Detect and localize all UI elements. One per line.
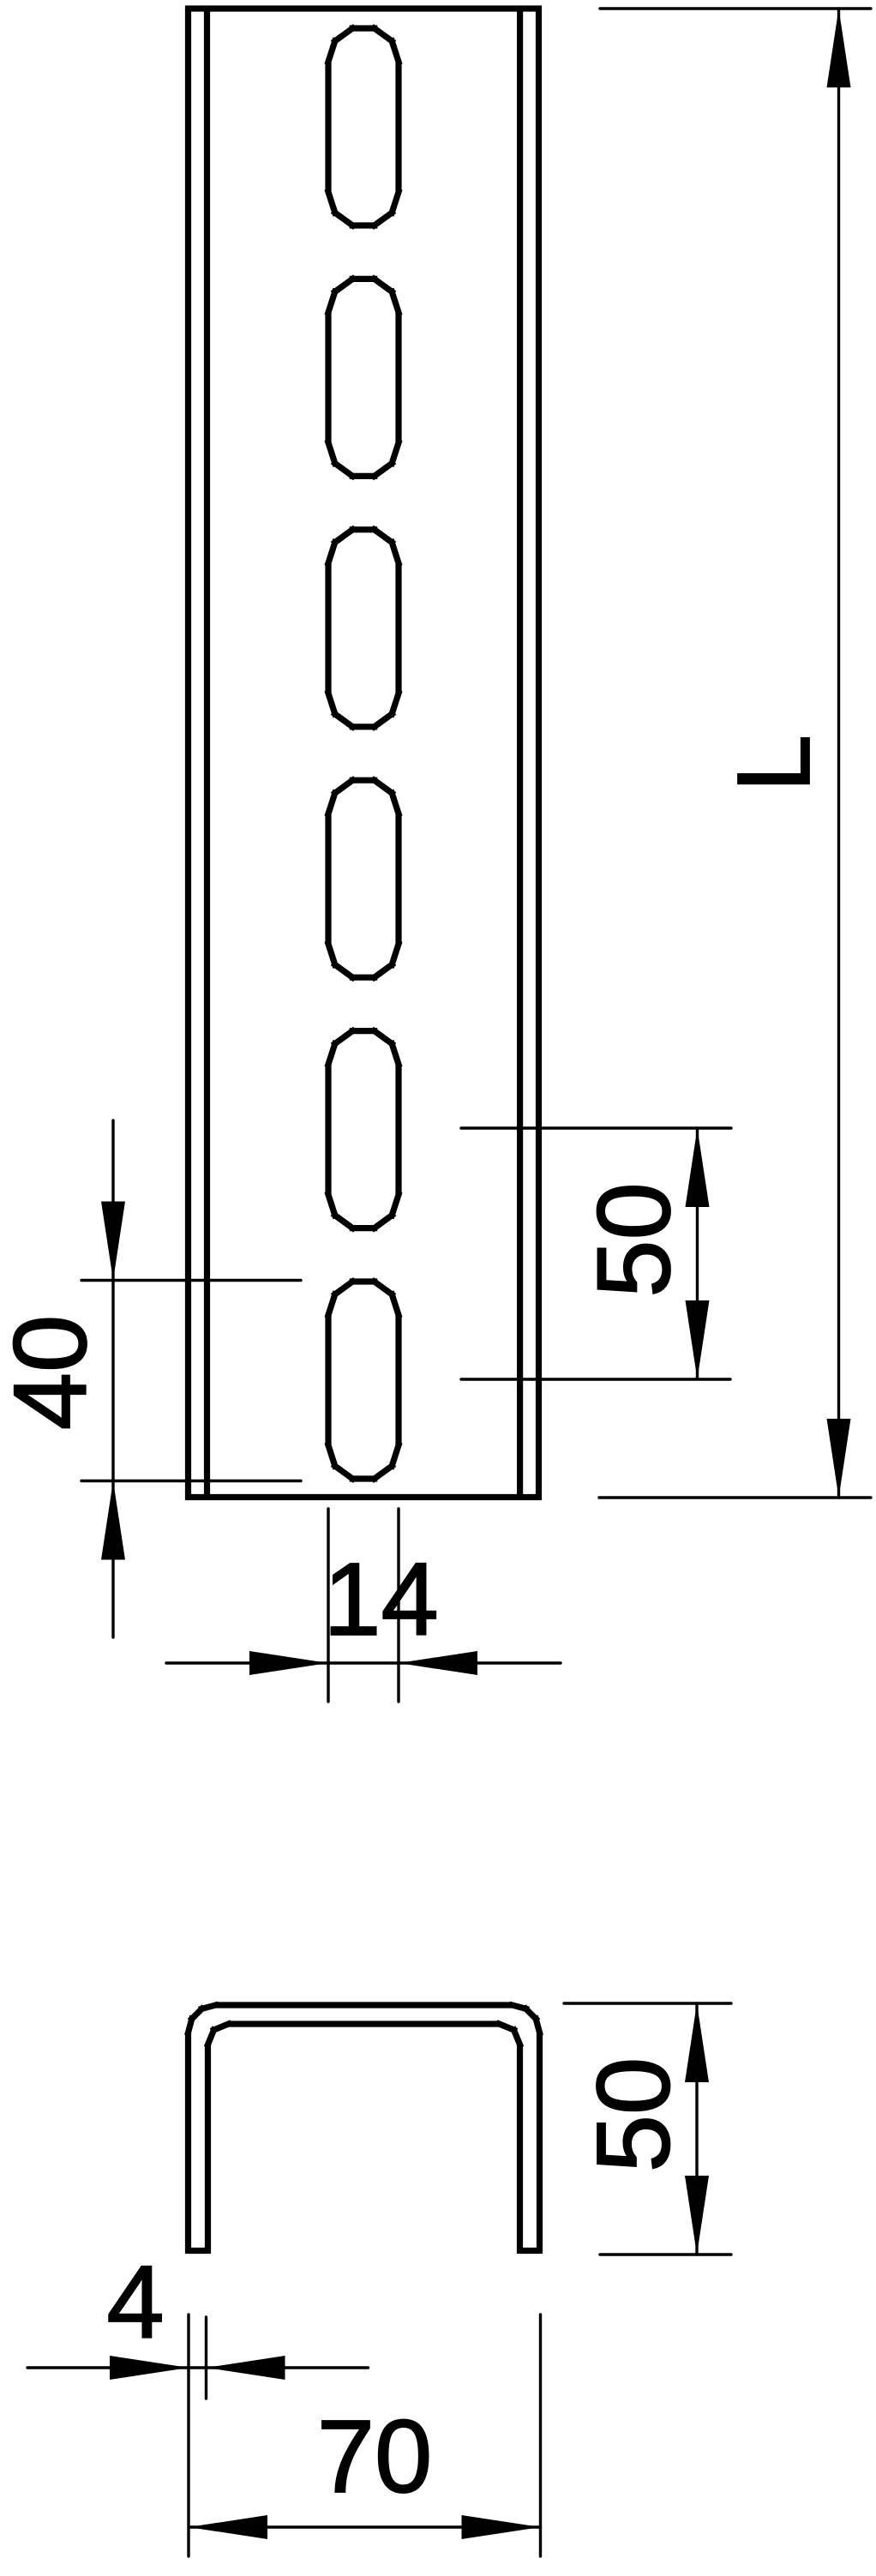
dim 14: left extension line	[327, 1509, 329, 1702]
svg-text:50: 50	[575, 2057, 692, 2173]
dim 4: right arrowhead (outside, pointing left)	[207, 2356, 285, 2380]
svg-text:14: 14	[323, 1540, 439, 1657]
dim 50 height: dimension line	[695, 2003, 698, 2255]
dim 70: right arrowhead (inside, pointing right)	[462, 2515, 541, 2539]
dim 50 pitch: dimension line	[696, 1128, 699, 1379]
section: right leg bottom cap	[520, 2248, 540, 2254]
slot hole 4 (14x40)	[328, 793, 335, 814]
section: left leg bottom cap	[189, 2248, 208, 2254]
dim 14: left arrowhead (outside, pointing right)	[249, 1651, 328, 1675]
dim 70: left arrowhead (inside, pointing left)	[189, 2515, 267, 2539]
slot hole 3 (14x40)	[328, 543, 335, 563]
dim L: top extension line	[600, 7, 871, 9]
dim 40: upper extension line	[81, 1279, 301, 1282]
dim 50 pitch: upper extension line	[461, 1126, 731, 1129]
dim 4: left arrowhead (outside, pointing right)	[110, 2356, 189, 2380]
dim 50 height: lower arrowhead	[685, 2176, 709, 2255]
dim 40: upper arrowhead (outside, pointing down)	[101, 1202, 125, 1281]
dim 50 height: upper extension line	[564, 2002, 731, 2004]
slot hole 2 (14x40)	[328, 291, 335, 312]
dim 50 pitch: lower extension line	[461, 1378, 730, 1380]
dim 4: left extension line (shared with dim 70)	[187, 2315, 189, 2556]
dim 14: dimension line	[166, 1661, 561, 1664]
dim 4: right extension line	[205, 2317, 207, 2399]
dim L: bottom extension line	[599, 1496, 871, 1498]
svg-text:70: 70	[317, 2398, 433, 2514]
svg-text:50: 50	[575, 1182, 692, 1298]
rail front view: left fold edge	[204, 9, 210, 1498]
dim L: bottom arrowhead	[827, 1419, 851, 1498]
dim 14: right extension line	[397, 1509, 399, 1702]
rail front view: right fold edge	[517, 9, 523, 1498]
svg-text:L: L	[715, 735, 831, 792]
svg-text:4: 4	[106, 2243, 164, 2360]
dim 50 height: upper arrowhead	[685, 2003, 709, 2082]
dim 14: right arrowhead (outside, pointing left)	[399, 1651, 477, 1675]
dim 70: right extension line	[539, 2315, 542, 2556]
dim 4: dimension line	[27, 2366, 369, 2369]
dim 70: dimension line	[189, 2525, 541, 2528]
dim 50 pitch: lower arrowhead	[686, 1300, 710, 1379]
section: outer profile	[185, 2033, 191, 2254]
slot hole 1 (14x40)	[328, 41, 335, 62]
slot hole 5 (14x40)	[328, 1044, 335, 1065]
dim L: top arrowhead	[827, 9, 851, 87]
slot hole 6 (14x40)	[328, 1294, 335, 1315]
dim L: dimension line	[837, 9, 840, 1498]
rail front view: outer outline	[189, 9, 539, 1498]
dim 40: lower extension line	[81, 1480, 301, 1482]
dim 50 pitch: upper arrowhead	[686, 1128, 710, 1207]
svg-text:40: 40	[0, 1315, 108, 1431]
dim 40: dimension line	[111, 1120, 114, 1637]
section: inner profile	[205, 2045, 211, 2254]
dim 40: lower arrowhead (outside, pointing up)	[101, 1481, 125, 1560]
dim 50 height: lower extension line	[600, 2253, 731, 2255]
